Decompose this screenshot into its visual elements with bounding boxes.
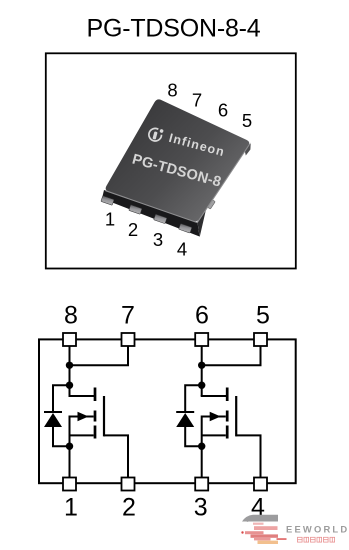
svg-text:4: 4 xyxy=(177,239,187,260)
svg-text:1: 1 xyxy=(64,493,78,521)
package photo: side face bottom-left xyxy=(102,190,200,237)
junction dot pin6/pin5 xyxy=(198,362,205,369)
pin 5 pad xyxy=(254,333,267,346)
diode D2 cathode bar xyxy=(176,411,194,413)
package photo: corner facet near B xyxy=(245,143,251,155)
pin 4 pad xyxy=(254,478,267,491)
svg-text:2: 2 xyxy=(128,219,138,240)
wire source trunk Q2 to pin3 xyxy=(201,416,203,478)
wire pin7 to drain node xyxy=(70,347,129,366)
svg-text:7: 7 xyxy=(121,302,135,330)
wire pin8 drain trunk xyxy=(69,347,71,397)
package photo: pin tab 4 xyxy=(179,224,192,234)
svg-text:8: 8 xyxy=(167,80,177,101)
package photo: top face xyxy=(106,99,250,221)
EEWORLD red dash xyxy=(277,538,287,540)
schematic package outline xyxy=(39,339,296,483)
wire diode branch top Q1 xyxy=(53,385,70,413)
mosfet Q1 gate plate xyxy=(103,396,105,436)
junction dot source/diode Q1 xyxy=(66,443,73,450)
mosfet Q1 body arrow wire xyxy=(70,416,94,418)
wire pin5 to drain node xyxy=(202,347,261,366)
EEWORLD watermark logo E swoosh xyxy=(241,515,278,544)
svg-text:5: 5 xyxy=(256,302,270,330)
wire drain to channel Q2 xyxy=(202,395,227,396)
svg-text:1: 1 xyxy=(105,209,115,230)
svg-text:3: 3 xyxy=(153,229,163,250)
diode D2 body xyxy=(176,413,194,427)
svg-text:EEWORLD: EEWORLD xyxy=(286,524,349,535)
svg-text:8: 8 xyxy=(64,302,78,330)
junction dot drain/diode Q2 xyxy=(198,382,205,389)
package photo: side face bottom-right xyxy=(198,142,252,237)
wire diode anode Q1 xyxy=(53,426,70,446)
package photo: pin tab 3 xyxy=(154,214,167,224)
photo frame box xyxy=(46,53,296,268)
EEWORLD chinese subtitle xyxy=(298,537,335,542)
diode D1 cathode bar xyxy=(44,411,62,413)
wire diode anode Q2 xyxy=(185,426,202,446)
mosfet Q2 source bar wire xyxy=(202,434,226,436)
pin 2 pad xyxy=(122,478,135,491)
package photo: pin tab right side xyxy=(204,197,216,209)
package photo: pin tab 2 xyxy=(129,205,142,215)
svg-text:6: 6 xyxy=(195,302,209,330)
mosfet Q1 source bar wire xyxy=(70,434,94,436)
pin 8 pad xyxy=(63,333,76,346)
mosfet Q2 arrowhead xyxy=(210,412,221,422)
package photo: Infineon logo xyxy=(130,123,230,191)
svg-text:2: 2 xyxy=(122,493,136,521)
pin 3 pad xyxy=(195,478,208,491)
wire diode branch top Q2 xyxy=(185,385,202,413)
wire drain to channel Q1 xyxy=(70,395,95,396)
mosfet Q1 arrowhead xyxy=(78,412,89,422)
mosfet Q2 body arrow wire xyxy=(202,416,226,418)
mosfet Q1 channel bars xyxy=(94,388,97,402)
svg-text:3: 3 xyxy=(194,493,208,521)
pin 1 pad xyxy=(63,478,76,491)
svg-text:7: 7 xyxy=(192,90,202,111)
package photo: pin tab 1 xyxy=(101,196,114,206)
wire source trunk Q1 to pin1 xyxy=(69,416,71,478)
mosfet Q2 channel bars xyxy=(226,388,229,402)
svg-text:5: 5 xyxy=(242,110,252,131)
svg-text:6: 6 xyxy=(218,100,228,121)
wire gate Q2 to pin4 xyxy=(236,435,260,477)
junction dot pin8/pin7 xyxy=(66,362,73,369)
pin 7 pad xyxy=(122,333,135,346)
svg-text:PG-TDSON-8-4: PG-TDSON-8-4 xyxy=(86,15,260,43)
mosfet Q2 gate plate xyxy=(235,396,237,436)
diode D1 body xyxy=(44,413,62,427)
package photo: chamfer light edge xyxy=(106,144,250,223)
pin 6 pad xyxy=(195,333,208,346)
wire gate Q1 to pin2 xyxy=(104,435,128,477)
wire pin6 drain trunk xyxy=(201,347,203,397)
junction dot source/diode Q2 xyxy=(198,443,205,450)
junction dot drain/diode Q1 xyxy=(66,382,73,389)
